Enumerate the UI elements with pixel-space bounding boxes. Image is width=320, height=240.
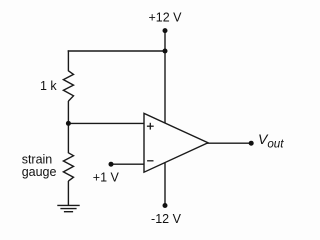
wire: strain gauge bottom to ground (67, 181, 69, 205)
node A junction dot (66, 121, 71, 126)
wire: resistor R1 bottom to node A junction (67, 101, 69, 123)
resistor R1 1 k zigzag (63, 71, 73, 101)
wire: left rail corner to resistor R1 top (67, 50, 69, 71)
ground symbol (57, 205, 79, 211)
svg-text:gauge: gauge (22, 165, 57, 179)
wire: +12V supply rail vertical (x=165) (164, 31, 166, 206)
node: junction of top wire and supply rail (163, 49, 168, 54)
op-amp noninverting pin + symbol (147, 123, 154, 130)
svg-text:+1 V: +1 V (93, 171, 120, 185)
wire: node A to op-amp noninverting input (68, 122, 144, 124)
node: +12V terminal dot (163, 28, 168, 33)
wire: op-amp output to Vout terminal (207, 142, 251, 144)
resistor strain gauge zigzag (63, 153, 73, 181)
op-amp U1 triangle (144, 113, 208, 172)
node: +1V terminal dot (109, 162, 114, 167)
op-amp inverting pin - symbol (147, 160, 153, 162)
svg-text:-12 V: -12 V (151, 212, 182, 226)
wire: node A down to strain gauge top (67, 123, 69, 153)
wire: +1V source to op-amp inverting input (111, 163, 145, 165)
svg-text:1 k: 1 k (40, 79, 57, 93)
wire: top horizontal from left rail to supply rail (68, 50, 165, 52)
svg-text:+12 V: +12 V (148, 11, 182, 25)
node: -12V terminal dot (163, 203, 168, 208)
node: Vout terminal dot (249, 141, 254, 146)
